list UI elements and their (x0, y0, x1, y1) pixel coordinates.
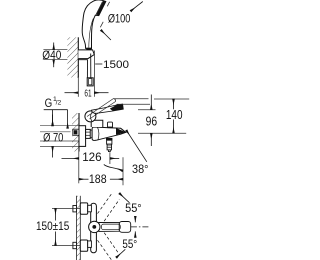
grip inner contour (89, 19, 94, 48)
svg-text:55°: 55° (125, 201, 142, 215)
right extension line top of 140 (154, 98, 189, 100)
lever arm (plan) (99, 222, 120, 231)
collar under lever (91, 120, 103, 127)
angle arrow lower (134, 231, 136, 237)
G1/2 leader arrow right (67, 110, 69, 129)
wall face extension line down to 61-dim (77, 78, 79, 97)
closed lever dark tip (110, 104, 124, 111)
Ø100 dimension: upper arrow segment (131, 2, 143, 12)
bottom pipe hex (73, 242, 77, 248)
pivot outer circle (89, 221, 100, 232)
Ø40 dimension arrows (53, 43, 55, 50)
raised lever (thin outline) (87, 99, 114, 117)
flange/pipe reference lines (40, 125, 79, 127)
wall face line (middle view) (78, 113, 80, 152)
svg-text:55°: 55° (122, 237, 137, 251)
38° leader to spout tip (126, 130, 147, 162)
bottom union hex nut (88, 241, 92, 248)
svg-text:Ø40: Ø40 (42, 48, 61, 62)
150±15 dimension arrows (55, 208, 57, 220)
top union hex nut (88, 205, 92, 212)
126 dimension arrows (62, 157, 79, 159)
188 right extension line (spout tip) (122, 157, 124, 185)
wall face extension line down to 126/188 dims (78, 150, 80, 184)
lever inner contour (102, 224, 121, 230)
hose end fitting (87, 78, 93, 86)
shower hose (86, 60, 88, 78)
svg-text:/2: /2 (56, 99, 62, 106)
lever knob (85, 111, 96, 122)
right extension line from lever tip (raised) (114, 98, 149, 100)
188 dimension arrows (79, 178, 89, 180)
centerline dash-dot (131, 226, 149, 228)
bracket clamp dark band (86, 48, 91, 51)
55° top leader (119, 193, 129, 203)
top escutcheon (80, 203, 87, 214)
curved leader to spout-tip extension (104, 165, 123, 171)
55° bottom leader (116, 249, 125, 257)
shower head face (spray plate, dark) (96, 1, 105, 16)
face rim line (96, 1, 103, 14)
angle arrow upper (134, 216, 136, 222)
61 dimension arrows (65, 92, 79, 94)
lever tip block (119, 222, 130, 233)
svg-text:140: 140 (166, 108, 183, 122)
150±15 extension lines (52, 207, 80, 209)
dashed swing rays upper (98, 194, 112, 214)
Ø70 dimension arrows (52, 115, 54, 126)
wall bracket wedge (78, 50, 94, 59)
Ø100 dimension: lower arrow segment (101, 30, 111, 40)
cartridge boundary arc (98, 127, 99, 140)
wall band lines (76, 196, 78, 260)
dashed swing rays lower (98, 240, 112, 260)
bottom escutcheon (80, 240, 87, 251)
61 right extension line (bracket front) (93, 51, 95, 97)
svg-text:Ø 70: Ø 70 (43, 131, 63, 144)
wall hatch (top view) (67, 37, 78, 77)
Ø40 extension lines (bracket top/bottom extended) (43, 49, 67, 51)
diverter knob on spout (108, 122, 113, 128)
escutcheon flange (79, 126, 86, 147)
closed lever (92, 104, 124, 113)
top pipe hex (73, 206, 77, 212)
svg-text:126: 126 (82, 150, 102, 164)
extension line bottom (spout outlet) (138, 132, 186, 134)
svg-text:1500: 1500 (103, 59, 129, 71)
1500 hose-length leader (95, 63, 102, 65)
G1/2 leader arrow left (52, 110, 54, 126)
spout tip dark wedge (116, 128, 126, 135)
extension line top of 96 (138, 109, 156, 111)
union ring (90, 130, 92, 138)
wall band hatch (bottom view) (77, 196, 81, 260)
140 dimension (173, 99, 175, 109)
shower head and handle body (82, 0, 106, 48)
126 right extension line (outlet axis) (109, 152, 111, 164)
svg-text:150±15: 150±15 (36, 219, 70, 233)
pivot hub (dark) (92, 225, 96, 229)
G1/2 leader line (44, 109, 68, 111)
Ø100 face extension ticks (107, 2, 109, 7)
svg-text:G: G (45, 96, 53, 110)
shower hose outlet fitting below spout (106, 138, 112, 140)
supply pipe in wall (dark) (73, 129, 79, 135)
wall hatch (middle view) (72, 113, 79, 152)
svg-text:38°: 38° (132, 162, 149, 176)
body (plan) (91, 203, 97, 253)
svg-text:61: 61 (84, 88, 91, 99)
svg-text:188: 188 (89, 172, 107, 186)
svg-text:96: 96 (146, 114, 158, 128)
96 dimension (150, 95, 152, 110)
union hex nut (86, 129, 91, 138)
extension line from closed lever tip (117, 103, 151, 105)
svg-text:Ø100: Ø100 (108, 12, 131, 26)
mixer body + spout (92, 127, 126, 140)
wall face line (top view) (77, 37, 79, 77)
